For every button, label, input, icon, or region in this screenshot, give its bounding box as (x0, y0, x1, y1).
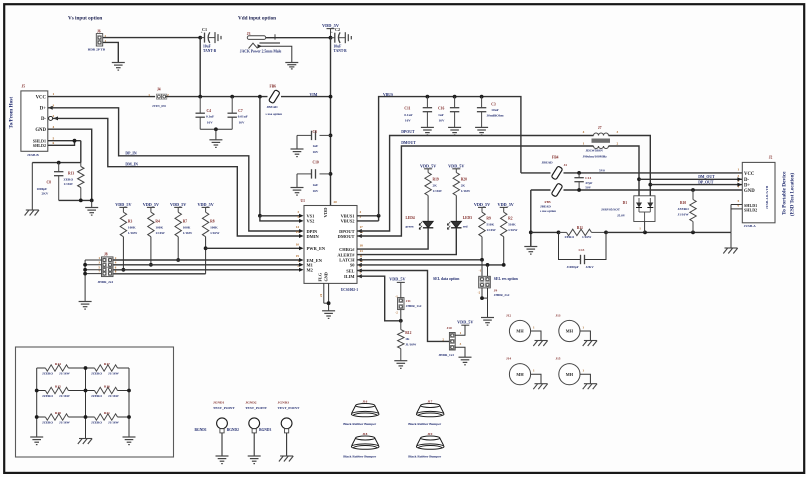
resistor R12 ILIM set (400, 321, 402, 330)
chassis ground at shield (26, 209, 39, 211)
junction shield rail start (529, 231, 533, 235)
capacitor C7 0.01uF 16V (231, 97, 233, 114)
svg-text:JHDR_1x3: JHDR_1x3 (438, 353, 454, 357)
capacitor C8 1000pF 2KV (58, 163, 60, 172)
svg-text:DM_OUT: DM_OUT (698, 175, 715, 179)
svg-text:R14: R14 (55, 362, 61, 366)
svg-text:R7: R7 (183, 220, 188, 224)
svg-text:SEL: SEL (346, 268, 354, 273)
wire shield join down to rail (730, 205, 732, 233)
chassis ground at J14 (535, 383, 548, 385)
junction VBUS at C3 (480, 95, 484, 99)
wire header left pins common (85, 259, 101, 261)
svg-text:J3: J3 (247, 32, 251, 36)
svg-text:MH: MH (566, 372, 574, 377)
junction at VS1 (258, 214, 262, 218)
svg-text:VDD_5V: VDD_5V (197, 202, 213, 207)
svg-text:UCS1002-1: UCS1002-1 (341, 288, 359, 292)
svg-text:100K: 100K (183, 225, 191, 229)
wire D+ to DP_IN (48, 108, 300, 231)
svg-text:1/16W: 1/16W (582, 235, 592, 239)
pin D- arrow at J2 (737, 177, 742, 181)
svg-text:R12: R12 (405, 331, 411, 335)
svg-text:JVIN_FD: JVIN_FD (152, 104, 166, 108)
svg-text:0.1uF: 0.1uF (206, 114, 214, 118)
junction S0 at jumper (486, 263, 490, 267)
wire GND pin down (328, 283, 330, 310)
wire J9 to ground (487, 298, 489, 317)
capacitor C14 47pF 50V (578, 173, 580, 178)
svg-text:CHRG#: CHRG# (339, 247, 355, 252)
ground at JGND2 (248, 455, 261, 457)
svg-text:JHDR_1x2: JHDR_1x2 (406, 304, 422, 308)
wire shield rail right (606, 231, 731, 233)
svg-text:ZERO: ZERO (64, 177, 74, 181)
svg-text:To/From Host: To/From Host (9, 97, 15, 129)
wire J6 pin1 to ground (103, 42, 119, 62)
svg-text:16V: 16V (207, 121, 213, 125)
wire J9 bottom pins tie (481, 288, 483, 298)
wire R3 to M2 line (122, 237, 124, 270)
svg-text:S0: S0 (350, 263, 355, 268)
svg-text:JZERO: JZERO (42, 372, 53, 376)
svg-text:TEST_POINT: TEST_POINT (278, 406, 300, 410)
svg-text:19: 19 (296, 254, 300, 258)
wire J14 to chassis (531, 374, 541, 384)
svg-text:JGND1: JGND1 (213, 400, 225, 404)
junction VBUS at C11 (426, 95, 430, 99)
svg-text:10: 10 (296, 243, 300, 247)
svg-text:5: 5 (738, 199, 740, 203)
svg-text:JUSB-A R/A TH: JUSB-A R/A TH (765, 185, 769, 209)
svg-text:VDD_5V: VDD_5V (498, 202, 514, 207)
pin D+ arrow (48, 106, 53, 110)
svg-text:J90ohm/100MHz: J90ohm/100MHz (583, 154, 608, 158)
svg-text:R19: R19 (433, 178, 439, 182)
junction shield rail right of R11 (604, 231, 608, 235)
wire SHLD1 (48, 140, 81, 142)
wire LATCH line (357, 259, 482, 261)
svg-text:J1/16W: J1/16W (108, 421, 120, 425)
svg-text:J5: J5 (22, 85, 26, 89)
svg-text:red: red (463, 225, 468, 229)
svg-text:JZERO: JZERO (678, 207, 690, 211)
svg-text:DMOUT: DMOUT (338, 234, 355, 239)
resistor R17 ZERO (86, 367, 95, 369)
svg-text:R13: R13 (68, 172, 74, 176)
wire R8 to PWR_EN line (205, 237, 207, 274)
svg-text:J4: J4 (564, 163, 568, 167)
svg-text:FB5: FB5 (545, 200, 551, 204)
svg-text:R17: R17 (104, 362, 110, 366)
resistor R18 ZERO (37, 416, 46, 418)
svg-text:JDLW5BSN: JDLW5BSN (586, 149, 604, 153)
svg-text:4: 4 (53, 125, 55, 129)
svg-text:100K: 100K (155, 225, 163, 229)
svg-text:GND: GND (744, 189, 755, 194)
junction SHLD tie (73, 139, 77, 143)
pin arrows U1 right side (357, 229, 362, 233)
svg-text:4: 4 (583, 130, 585, 134)
wire LED3 to ALERT# (357, 228, 456, 255)
svg-text:C8: C8 (47, 181, 52, 185)
svg-text:1000pF: 1000pF (37, 187, 48, 191)
svg-text:17: 17 (360, 225, 364, 229)
svg-text:BGND2: BGND2 (227, 428, 239, 432)
svg-text:MH: MH (566, 329, 574, 334)
capacitor C2 10uF TANT-B (331, 37, 335, 39)
svg-text:JSRV05/SOT: JSRV05/SOT (601, 207, 621, 211)
chassis ground at J12 (535, 340, 548, 342)
svg-text:16V: 16V (313, 189, 319, 193)
svg-text:VDD_5V: VDD_5V (143, 202, 159, 207)
resistor R11 ZERO shield (559, 231, 567, 233)
svg-text:J12: J12 (506, 314, 511, 318)
svg-text:1/16W: 1/16W (210, 231, 220, 235)
svg-text:To Portable Device: To Portable Device (782, 171, 788, 215)
svg-text:2K: 2K (433, 183, 438, 187)
resistor R13 ZERO (80, 163, 82, 167)
resistor R2 510K (501, 212, 507, 237)
svg-text:JGND2: JGND2 (245, 400, 257, 404)
svg-text:FB4: FB4 (552, 155, 559, 159)
resistor R3 100K pullup (120, 212, 126, 237)
svg-text:VDD_5V: VDD_5V (170, 202, 186, 207)
svg-text:JZERO: JZERO (42, 394, 53, 398)
svg-text:R10: R10 (680, 201, 686, 205)
svg-text:R20: R20 (461, 178, 467, 182)
wire SHLD1 stub at J2 (731, 204, 742, 206)
svg-text:100K: 100K (128, 225, 136, 229)
wire choke pin3 to DP_OUT (609, 136, 651, 197)
resistor R16 ZERO (86, 390, 95, 392)
svg-text:R2: R2 (508, 217, 513, 221)
ground at C3 (475, 126, 488, 128)
svg-text:SHLD2: SHLD2 (33, 143, 46, 148)
svg-text:16V: 16V (439, 119, 445, 123)
chassis ground at JGND3 (280, 455, 293, 457)
jumper J4 VIN feed (156, 94, 161, 99)
svg-text:18: 18 (360, 243, 364, 247)
diode LED3 red (451, 221, 461, 228)
svg-text:J7: J7 (598, 126, 602, 130)
wire JGND1 stem (221, 433, 223, 456)
svg-text:J1/16W: J1/16W (108, 394, 120, 398)
svg-text:10uF: 10uF (491, 108, 498, 112)
svg-text:VDD_5V: VDD_5V (448, 163, 464, 168)
junction VIM at C4 (230, 95, 234, 99)
svg-text:green: green (406, 225, 414, 229)
wire JGND2 stem (253, 433, 255, 456)
svg-text:TANT-B: TANT-B (334, 49, 348, 53)
svg-text:JZERO: JZERO (91, 394, 102, 398)
ground at jack (285, 62, 298, 64)
junction GND at R10 (691, 188, 695, 192)
junction VIM at C1 (198, 95, 202, 99)
svg-text:DP_IN: DP_IN (125, 152, 136, 156)
ground left rail (30, 436, 43, 438)
ground at C5 (291, 148, 304, 150)
svg-text:3: 3 (617, 130, 619, 134)
svg-text:PWR_EN: PWR_EN (307, 246, 326, 251)
svg-text:1/16W: 1/16W (433, 189, 443, 193)
svg-text:D+: D+ (744, 183, 750, 188)
resistor R7 100K pullup (175, 212, 181, 237)
wire VS1/VS2 supply drop (259, 97, 261, 216)
svg-text:30milliOhm: 30milliOhm (487, 113, 504, 117)
junction at C8 top (57, 161, 61, 165)
ferrite bead FB4 (521, 172, 551, 174)
svg-text:JZERO: JZERO (91, 421, 102, 425)
junction at TVS return (643, 231, 647, 235)
svg-text:J19: J19 (427, 432, 432, 436)
svg-text:VDD_5V: VDD_5V (115, 202, 131, 207)
svg-text:J1/16W: J1/16W (678, 213, 690, 217)
svg-text:DM_IN: DM_IN (125, 163, 138, 167)
wire header pin8 to PWR_EN riser (114, 273, 206, 275)
wire S0 to J9 (487, 265, 489, 279)
wire R4 to M1 line (150, 237, 152, 265)
ground at C11 (421, 126, 434, 128)
junction VBUS at C16 (453, 95, 457, 99)
svg-text:J1000pF: J1000pF (567, 265, 579, 269)
svg-text:D+: D+ (40, 107, 46, 112)
connector J9 HDR_2x2 SEL options (479, 276, 491, 288)
capacitor C11 0.1uF (426, 97, 428, 108)
wire to host ground (91, 200, 93, 207)
svg-text:JHDR_2x2: JHDR_2x2 (494, 293, 510, 297)
svg-text:JBEAD: JBEAD (267, 105, 279, 109)
svg-text:JACK Power 2.5mm Male: JACK Power 2.5mm Male (240, 50, 282, 54)
wire SEL net to J10 (357, 271, 449, 342)
svg-text:1: 1 (53, 92, 55, 96)
wire GND drop to ground (530, 190, 532, 247)
svg-text:ILIM: ILIM (344, 274, 355, 279)
svg-text:J1/16W: J1/16W (59, 421, 71, 425)
diode D1 TVS array SRV05 (634, 196, 655, 222)
wire EM_EN line (114, 259, 301, 261)
node Vs / junction at C1 (198, 36, 202, 40)
inductor J7 common-mode choke (594, 133, 609, 136)
wire VCC pin1 to J4 jumper (48, 96, 155, 98)
svg-text:1/16W: 1/16W (128, 231, 138, 235)
svg-text:C5: C5 (313, 130, 318, 134)
svg-text:(ESD Test Location): (ESD Test Location) (791, 173, 796, 216)
wire left rail of network (36, 368, 38, 437)
ferrite bead FB5 (531, 189, 551, 191)
svg-text:s use option: s use option (266, 112, 283, 116)
svg-text:J16: J16 (362, 400, 367, 404)
svg-text:VBUS: VBUS (383, 93, 393, 97)
svg-text:DMOUT: DMOUT (401, 141, 416, 145)
mounting hole J15 (559, 364, 580, 385)
capacitor C10 1uF 16V (320, 173, 331, 175)
capacitor C4 0.1uF 16V (199, 97, 201, 114)
ground at GND drop (524, 246, 537, 248)
resistor R9 510K (479, 212, 485, 237)
svg-text:J1/16W: J1/16W (59, 394, 71, 398)
capacitor C5 1uF 16V (320, 134, 331, 136)
svg-text:16V: 16V (239, 121, 245, 125)
svg-text:HDR 2P TB: HDR 2P TB (88, 47, 106, 51)
wire M2 line (114, 269, 301, 271)
resistor R10 ZERO (692, 190, 694, 200)
svg-text:J15: J15 (555, 357, 560, 361)
svg-text:R9: R9 (486, 217, 491, 221)
wire J10 pin3 to ground (455, 347, 465, 357)
wire M1 line (114, 264, 301, 266)
svg-text:100K: 100K (210, 225, 218, 229)
svg-text:510K: 510K (486, 222, 494, 226)
svg-text:J10: J10 (447, 326, 452, 330)
svg-text:2KV: 2KV (42, 192, 49, 196)
junction VDD at C10 (329, 172, 333, 176)
resistor R19 2K (425, 173, 431, 196)
wire GND out line (564, 189, 743, 191)
ground at JGND1 (216, 455, 229, 457)
svg-text:C11: C11 (404, 107, 410, 111)
wire R7 to EM_EN line (177, 237, 179, 260)
wire R20 to LED3 (455, 196, 457, 222)
svg-text:DPOUT: DPOUT (401, 130, 415, 134)
wire C1 node down to VIM bus (199, 38, 201, 97)
wire right rail of network (128, 368, 130, 437)
svg-text:C10: C10 (313, 161, 319, 165)
connector J10 HDR_1x3 (449, 333, 455, 351)
pin D- no-connect circle and arrow (49, 116, 53, 120)
svg-text:3: 3 (53, 103, 55, 107)
svg-text:JBEAD: JBEAD (542, 160, 554, 164)
svg-text:1: 1 (738, 168, 740, 172)
svg-text:JUSB-A: JUSB-A (744, 224, 756, 228)
wire JGND3 stem (286, 433, 288, 456)
junction VIM at VS drop (258, 95, 262, 99)
junction DM_OUT at TVS (637, 177, 641, 181)
svg-text:J6: J6 (97, 29, 101, 33)
wire R2 to S0 (503, 237, 505, 265)
wire shield network top rail (32, 162, 81, 164)
wire DMOUT net (357, 146, 594, 236)
resistor R21 ZERO (86, 416, 95, 418)
connector J6 HDR 2P TB (96, 34, 102, 46)
svg-text:1: 1 (148, 93, 150, 97)
svg-text:MH: MH (516, 329, 524, 334)
svg-text:SEL data option: SEL data option (433, 277, 460, 281)
svg-text:C4: C4 (207, 109, 212, 113)
svg-text:1K: 1K (405, 337, 410, 341)
svg-text:0.1uF: 0.1uF (404, 113, 412, 117)
svg-text:LED4: LED4 (406, 216, 415, 220)
svg-text:VDD_5V: VDD_5V (420, 163, 436, 168)
ground at C16 (448, 126, 461, 128)
svg-text:JHDR_2x4: JHDR_2x4 (98, 280, 114, 284)
ground at R12 (394, 360, 407, 362)
chassis ground at J13 (584, 340, 597, 342)
ground at C4/C7 (209, 139, 222, 141)
wire J13 to chassis (580, 331, 590, 341)
svg-text:ZERO: ZERO (565, 235, 575, 239)
mounting hole J14 (509, 364, 530, 385)
wire VBUS riser and top run (379, 97, 521, 216)
svg-text:Black Rubber Bumper: Black Rubber Bumper (408, 455, 441, 459)
svg-text:GND: GND (324, 272, 329, 281)
junction VCC at C14 (577, 171, 581, 175)
wire VCC out line (564, 172, 743, 174)
svg-text:VBUS2: VBUS2 (341, 219, 355, 224)
wire J15 to chassis (580, 374, 590, 384)
wire D- to DM_IN (53, 118, 300, 236)
svg-text:C16: C16 (438, 107, 444, 111)
svg-text:C7: C7 (238, 109, 243, 113)
svg-text:GND: GND (35, 128, 46, 133)
wire SHLD2 stub at J2 (731, 208, 742, 210)
svg-text:16V: 16V (313, 150, 319, 154)
svg-text:5: 5 (53, 136, 55, 140)
svg-text:1: 1 (583, 142, 585, 146)
svg-text:J9: J9 (494, 289, 498, 293)
resistor R20 2K (453, 173, 459, 196)
chassis ground center rail (79, 438, 92, 440)
wire shield rail left (531, 231, 559, 233)
junction ILIM node (399, 319, 403, 323)
resistor R14 ZERO (37, 367, 46, 369)
wire VBUS1/VBUS2 stubs (357, 215, 379, 217)
svg-text:J8: J8 (104, 252, 108, 256)
svg-text:JUSB-B: JUSB-B (27, 153, 39, 157)
svg-text:J4: J4 (157, 88, 161, 92)
svg-text:J2: J2 (769, 156, 773, 160)
svg-text:21: 21 (319, 293, 323, 297)
wire rail to chassis (730, 232, 732, 248)
ground at J9 (481, 317, 494, 319)
junction VIM at VDD vertical (329, 95, 333, 99)
svg-text:10uF: 10uF (334, 44, 343, 48)
svg-text:15: 15 (296, 230, 300, 234)
svg-text:0.01uF: 0.01uF (238, 114, 248, 118)
mounting hole J13 (559, 320, 580, 341)
diode LED4 green (423, 221, 433, 228)
svg-text:10uF: 10uF (203, 44, 212, 48)
svg-text:SHLD2: SHLD2 (744, 208, 757, 213)
resistor R15 ZERO (37, 390, 46, 392)
svg-text:J13: J13 (555, 314, 560, 318)
svg-text:6: 6 (53, 141, 55, 145)
svg-text:Black Rubber Bumper: Black Rubber Bumper (343, 455, 376, 459)
svg-text:Vs input option: Vs input option (68, 15, 102, 21)
svg-text:R18: R18 (55, 411, 61, 415)
svg-text:1uF: 1uF (313, 183, 319, 187)
wire J11 to ILIM node (400, 310, 402, 321)
connector J5 USB host (21, 91, 48, 151)
svg-text:3: 3 (738, 174, 740, 178)
wire VIM bead to VDD node (281, 96, 331, 98)
svg-text:s use option: s use option (540, 209, 556, 213)
svg-text:1uF: 1uF (438, 113, 444, 117)
junction bottom rail at GND drop (90, 199, 94, 203)
svg-text:R16: R16 (104, 384, 110, 388)
wire to VS2 pin (260, 216, 300, 221)
jack sleeve contact (260, 42, 281, 44)
svg-text:LED3: LED3 (463, 216, 472, 220)
junction at R10 bottom (691, 231, 695, 235)
svg-text:M2: M2 (307, 268, 313, 273)
svg-text:C3: C3 (491, 103, 496, 107)
wire shield rail to chassis (31, 163, 33, 210)
svg-text:DP_OUT: DP_OUT (698, 181, 714, 185)
svg-text:J5.0V: J5.0V (617, 213, 626, 217)
box ground-stitch resistor network (16, 347, 174, 457)
connector J2 to portable device (742, 162, 775, 222)
